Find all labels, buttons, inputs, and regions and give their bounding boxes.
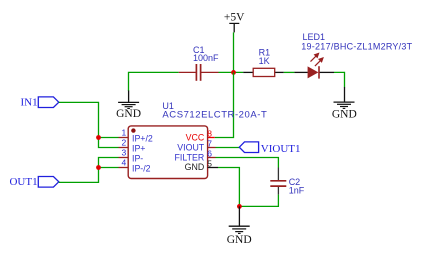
wire C1 to R1: [219, 71, 244, 73]
svg-text:19-217/BHC-ZL1M2RY/3T: 19-217/BHC-ZL1M2RY/3T: [301, 41, 412, 51]
svg-text:1K: 1K: [259, 56, 270, 66]
wire U1 pin 6 to C2: [216, 158, 279, 168]
resistor R1: [243, 68, 284, 76]
ground GND bottom: [227, 206, 252, 246]
svg-text:OUT1: OUT1: [9, 176, 37, 188]
svg-text:2: 2: [121, 138, 126, 148]
svg-text:IP+: IP+: [132, 144, 145, 154]
wire +5V stem to rail: [233, 32, 235, 72]
wire rail to U1 pin 8: [215, 72, 234, 137]
svg-text:VCC: VCC: [186, 132, 205, 142]
svg-text:ACS712ELCTR-20A-T: ACS712ELCTR-20A-T: [162, 110, 267, 121]
svg-text:3: 3: [121, 147, 126, 157]
svg-text:1: 1: [121, 128, 126, 138]
U1 pin 2 IP+: [119, 138, 146, 154]
svg-text:4: 4: [121, 157, 126, 167]
wire IN1 to U1 pin 2: [59, 102, 119, 147]
svg-text:100nF: 100nF: [193, 53, 219, 63]
U1 pin 4 IP-/2: [119, 157, 151, 173]
svg-text:VIOUT: VIOUT: [177, 142, 205, 152]
svg-text:GND: GND: [116, 108, 141, 120]
junction IN1 pin 1: [96, 135, 101, 140]
svg-text:FILTER: FILTER: [175, 152, 205, 162]
wire rail to left ground: [129, 72, 179, 91]
svg-text:IP+/2: IP+/2: [132, 134, 153, 144]
wire U1 pin 7 to VIOUT1: [216, 147, 240, 149]
svg-text:IP-: IP-: [132, 154, 143, 164]
svg-text:IP-/2: IP-/2: [132, 163, 151, 173]
wire OUT1 to U1 pin 3: [59, 158, 119, 183]
ground GND LED: [332, 87, 357, 121]
wire junction to U1 pin 4: [99, 167, 119, 169]
svg-text:7: 7: [207, 139, 212, 149]
svg-text:GND: GND: [185, 162, 205, 172]
IC U1: [128, 126, 207, 179]
svg-text:GND: GND: [227, 234, 252, 246]
U1 pin 8 VCC: [186, 129, 215, 143]
port VIOUT1: [239, 142, 300, 155]
junction ground: [237, 204, 242, 209]
port OUT1: [9, 176, 58, 188]
U1 pin 6 FILTER: [175, 149, 216, 163]
svg-text:8: 8: [207, 129, 212, 139]
svg-text:5: 5: [207, 159, 212, 169]
svg-text:6: 6: [207, 149, 212, 159]
wire C2 to ground junction: [239, 195, 278, 207]
svg-text:1nF: 1nF: [289, 186, 305, 196]
svg-text:GND: GND: [332, 109, 357, 121]
LED LED1: [294, 54, 334, 79]
svg-text:VIOUT1: VIOUT1: [261, 143, 301, 155]
capacitor C1: [179, 64, 219, 81]
wire U1 pin 5 to ground: [218, 168, 239, 207]
capacitor C2: [270, 168, 286, 195]
ground GND left: [116, 91, 141, 121]
U1 pin 1 IP+/2: [119, 128, 153, 144]
junction OUT1 pin 4: [96, 165, 101, 170]
U1 pin 3 IP-: [119, 147, 144, 163]
wire LED1 to ground: [334, 72, 345, 87]
wire R1 to LED1: [284, 71, 295, 73]
svg-text:+5V: +5V: [224, 12, 245, 24]
port IN1: [20, 96, 58, 108]
wire junction to U1 pin 1: [99, 137, 119, 139]
power +5V: [224, 12, 245, 33]
junction +5V rail: [231, 70, 236, 75]
U1 pin 7 VIOUT: [177, 139, 215, 153]
U1 pin 5 GND: [185, 159, 218, 173]
svg-text:IN1: IN1: [20, 96, 37, 108]
